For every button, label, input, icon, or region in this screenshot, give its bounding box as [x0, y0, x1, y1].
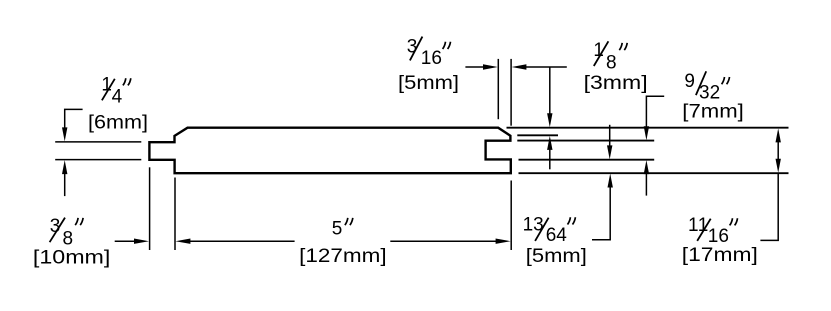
dim 5in left arrowhead [175, 239, 190, 244]
text 1/8 fraction slash [594, 41, 609, 66]
extension line below right end [510, 181, 512, 251]
extension line groove bottom wall [519, 159, 655, 161]
svg-text:[5mm]: [5mm] [526, 246, 587, 267]
svg-text:16: 16 [708, 226, 729, 247]
svg-text:4: 4 [112, 87, 123, 108]
dim 13/64in leader elbow [592, 186, 610, 240]
svg-text:[7mm]: [7mm] [682, 102, 744, 123]
board profile outline [149, 128, 510, 174]
text 13/64 fraction slash [535, 218, 549, 241]
extension line tongue-top left [55, 141, 141, 143]
extension line tongue-bottom left [55, 159, 141, 161]
dim 1/4in down arrowhead [62, 127, 67, 141]
dim 3/8in line [115, 240, 135, 242]
extension line below tongue shoulder [174, 178, 176, 251]
dim 9/32in up arrowhead [644, 160, 649, 174]
extension line chamfer depth [517, 134, 558, 136]
text 1/4 double prime [123, 78, 131, 85]
dim 13/64in upper tail [609, 125, 611, 147]
svg-text:[17mm]: [17mm] [682, 245, 758, 266]
svg-text:64: 64 [546, 225, 568, 246]
dim 1-1/16in leader elbow [760, 173, 778, 240]
text 9/32 fraction slash [696, 71, 706, 95]
text 1/4 fraction slash [102, 79, 115, 101]
svg-text:8: 8 [63, 228, 74, 249]
svg-text:9: 9 [684, 71, 695, 92]
dim 1-1/16in up arrowhead [776, 128, 781, 142]
dim 9/32in leader elbow [646, 96, 664, 127]
dim 13/64in down arrowhead [607, 145, 612, 159]
svg-text:[6mm]: [6mm] [88, 113, 148, 134]
svg-text:16: 16 [421, 48, 442, 69]
svg-text:[3mm]: [3mm] [584, 73, 648, 94]
dim 1/4in up arrowhead [62, 160, 67, 174]
dim 5in line left part [189, 240, 295, 242]
extension line bottom surface right [519, 172, 789, 174]
dim 1-1/16in vertical double arrow [777, 134, 779, 167]
text 13/64 double prime [568, 217, 576, 224]
dim 3/16in right tail [525, 66, 567, 68]
dim 1/8in lower tail [549, 149, 551, 170]
text 3/16 fraction slash [410, 37, 423, 61]
dim 3/16in left arrowhead [512, 64, 527, 69]
text 1/8 double prime [619, 43, 627, 50]
dim 9/32in down arrowhead [644, 126, 649, 140]
dim 5in line right part [390, 240, 497, 242]
dim 3/8in right arrowhead [134, 239, 149, 244]
svg-text:32: 32 [699, 82, 720, 103]
text 1-1/16 fraction slash [697, 219, 711, 241]
text 3/8 double prime [75, 218, 83, 225]
dim 3/16in left line [465, 66, 484, 68]
text 9/32 double prime [722, 77, 730, 84]
text 3/16 double prime [443, 42, 451, 49]
extension line top surface right [507, 127, 789, 129]
dim 1-1/16in down arrowhead [776, 159, 781, 173]
dim 5in right arrowhead [496, 239, 511, 244]
dim 1/8in up arrowhead [547, 136, 552, 150]
svg-text:5: 5 [332, 218, 343, 239]
extension line above chamfer start [497, 59, 499, 119]
dim 1/8in leader vertical [549, 67, 551, 115]
text 5 double prime [345, 218, 353, 225]
svg-text:8: 8 [606, 52, 617, 73]
text 1-1/16 double prime [730, 218, 738, 225]
dim 1/4in lower tail [64, 173, 66, 196]
svg-text:[10mm]: [10mm] [33, 248, 111, 269]
dim 3/16in right arrowhead [483, 64, 498, 69]
extension line below tongue tip [149, 167, 151, 250]
svg-text:[127mm]: [127mm] [299, 246, 387, 267]
dim 1/4in leader elbow [65, 109, 83, 128]
extension line groove top wall [517, 140, 654, 142]
extension line above right face [510, 59, 512, 126]
svg-text:[5mm]: [5mm] [398, 73, 459, 94]
text 3/8 fraction slash [50, 218, 65, 243]
dim 1/8in down arrowhead [547, 113, 552, 127]
dim 9/32in lower tail [645, 173, 647, 196]
dim 13/64in up arrowhead [608, 174, 613, 188]
